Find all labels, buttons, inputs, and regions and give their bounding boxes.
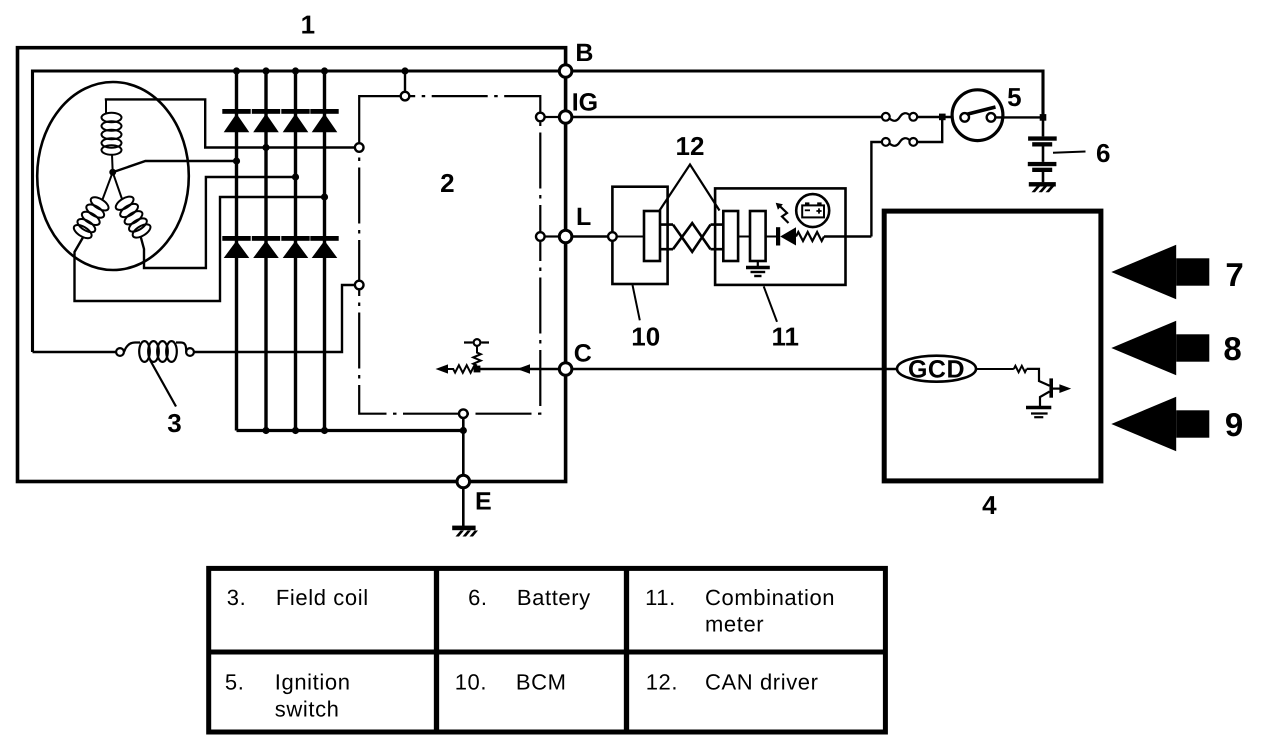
wire: neutral to rectifier column 1 [113, 161, 237, 172]
diode D6 (bottom row col 2) [252, 236, 280, 258]
junction neutral at col1 [233, 157, 240, 164]
svg-text:5.: 5. [225, 670, 245, 695]
junction dot at battery top [1040, 114, 1047, 121]
wire: lower-left phase to rectifier column 4 [75, 197, 325, 301]
legend table [209, 568, 886, 732]
svg-text:6.: 6. [468, 585, 488, 610]
wire: B bus from inner-left vertical along top to battery drop [33, 71, 1044, 352]
svg-text:1: 1 [301, 10, 315, 40]
diode D5 (bottom row col 1) [222, 236, 250, 258]
charge warning LED [776, 227, 796, 245]
diode D8 (bottom row col 4) [310, 236, 338, 258]
wire: GCD to transistor base resistor [976, 368, 1014, 370]
svg-text:7: 7 [1225, 256, 1243, 293]
junction on B rail col2 [262, 67, 269, 74]
junction phase B at col3 [292, 173, 299, 180]
arrow 7 [1111, 245, 1209, 300]
wire: L node to BCM [572, 235, 609, 237]
arrow tip left [436, 364, 449, 373]
svg-text:Combination: Combination [705, 585, 835, 610]
junction on B rail col4 [321, 67, 328, 74]
svg-text:C: C [574, 339, 592, 367]
svg-text:BCM: BCM [516, 670, 567, 695]
meter connector B [750, 211, 766, 261]
wire: regulator IG terminal to IG node [545, 116, 560, 118]
rectifier column lines [237, 71, 325, 431]
label 10 leader [633, 285, 640, 320]
slip ring right [186, 348, 194, 356]
wire: switch to battery junction [995, 116, 1043, 118]
wire: IG node to fuse [572, 116, 883, 119]
stator ellipse [37, 82, 189, 270]
label 6 leader [1053, 152, 1086, 153]
base resistor [1014, 366, 1027, 372]
wire: lower-right phase to rectifier column 3 [141, 177, 296, 268]
wire to charge lamp [766, 236, 776, 238]
svg-text:5: 5 [1007, 82, 1021, 112]
wire: E node to ground [462, 488, 465, 526]
wire from C node [477, 368, 566, 370]
junction phase C at col4 [321, 193, 328, 200]
svg-text:6: 6 [1096, 138, 1110, 168]
svg-text:3.: 3. [227, 585, 247, 610]
field coil wire (slip rings to regulator) [33, 351, 117, 353]
stator winding: lower-right phase coil [114, 194, 153, 240]
svg-text:11: 11 [771, 321, 799, 351]
ground (E) [452, 526, 478, 537]
field coil 3 [124, 341, 186, 362]
BCM box 10 [612, 187, 667, 284]
transistor emitter to ground [1040, 392, 1050, 407]
label 11 leader [764, 286, 777, 321]
BCM connector [644, 211, 660, 261]
junction dot [474, 366, 481, 373]
svg-text:8: 8 [1223, 330, 1241, 367]
ignition switch 5 [952, 90, 1003, 141]
alternator box 1 [18, 48, 566, 482]
svg-text:switch: switch [275, 697, 340, 722]
junction dot IG/fuse2 [939, 114, 946, 121]
ground (battery) [1029, 182, 1056, 192]
svg-text:Field coil: Field coil [276, 585, 369, 610]
alternator terminal nodes [457, 65, 572, 488]
lamp resistor [796, 232, 824, 241]
stator winding: top phase coil [102, 101, 122, 173]
combination meter box 11 [715, 188, 845, 285]
rectifier bottom rail [237, 429, 464, 432]
stator neutral point [109, 169, 116, 176]
wire: regulator top stub to B rail [404, 71, 406, 96]
svg-text:12: 12 [676, 131, 705, 161]
svg-text:Ignition: Ignition [275, 670, 351, 695]
diode D7 (bottom row col 3) [281, 236, 309, 258]
battery icon circle [796, 194, 829, 227]
svg-text:CAN driver: CAN driver [705, 670, 819, 695]
transistor Q1 base bar [1049, 378, 1053, 397]
battery icon [802, 202, 824, 217]
svg-text:11.: 11. [645, 585, 676, 610]
svg-text:10.: 10. [455, 670, 487, 695]
svg-text:12.: 12. [646, 670, 678, 695]
junction bottom rail col2 [262, 427, 269, 434]
BCM terminal circle [608, 232, 617, 241]
wire inside BCM [617, 236, 644, 238]
wire between connectors [738, 236, 750, 238]
label 3 leader [150, 360, 176, 407]
wire to transistor base [1027, 369, 1050, 386]
slip ring left [116, 348, 124, 356]
junction phase A at col2 [262, 144, 269, 151]
arrow into regulator [517, 364, 530, 374]
voltage regulator box 2 (dash-dot) [359, 96, 540, 414]
diode D1 (top row col 1) [222, 109, 250, 132]
diode D3 (top row col 3) [281, 109, 309, 132]
regulator terminal circles [355, 92, 545, 418]
svg-text:L: L [576, 203, 591, 231]
diode D2 (top row col 2) [252, 109, 280, 132]
ground (transistor) [1026, 408, 1051, 418]
diode D4 (top row col 4) [310, 109, 338, 132]
CAN stub wires (meter side) [711, 225, 724, 250]
transistor collector output arrow [1053, 388, 1061, 390]
wire: fuse to switch [917, 116, 952, 118]
battery 6 [1028, 120, 1057, 182]
sense terminal circle with ticks [474, 339, 481, 346]
svg-text:IG: IG [572, 88, 598, 116]
svg-text:4: 4 [982, 490, 997, 520]
connector B ground [757, 261, 759, 266]
CAN stub wires (BCM side) [660, 225, 673, 250]
junction bottom rail col4 [321, 427, 328, 434]
svg-text:Battery: Battery [517, 585, 591, 610]
LED light arrow [780, 207, 788, 223]
meter connector A [723, 211, 738, 261]
arrow 8 [1111, 321, 1209, 376]
svg-text:9: 9 [1225, 406, 1243, 443]
resistor (horizontal, C branch) [448, 365, 477, 373]
arrow 9 [1111, 397, 1209, 452]
stator winding: lower-left phase coil [72, 195, 111, 241]
svg-text:3: 3 [167, 408, 181, 438]
label 12 leaders [660, 165, 720, 211]
fuse F2 (meter feed) [871, 142, 882, 237]
CAN twisted pair 12 [673, 225, 711, 252]
wire: lamp to fuse F2 [824, 235, 871, 237]
fuse F1 [882, 113, 917, 121]
wire: stator Y leads [103, 172, 123, 199]
svg-text:GCD: GCD [908, 356, 965, 384]
wire: regulator L terminal to L node [545, 235, 560, 237]
junction on B rail col1 [233, 67, 240, 74]
svg-text:B: B [575, 39, 593, 67]
GCD stadium [897, 356, 976, 382]
junction bottom rail col3 [292, 427, 299, 434]
svg-text:2: 2 [440, 168, 454, 198]
junction bottom rail to E [460, 427, 467, 434]
svg-text:E: E [475, 488, 492, 516]
svg-text:meter: meter [705, 612, 764, 637]
svg-text:10: 10 [631, 321, 660, 351]
junction on B rail at regulator stub [401, 67, 408, 74]
wire: regulator bottom stub to rectifier rail and E [462, 418, 465, 482]
wire: C node to ECM [572, 368, 897, 371]
resistor (vertical) to sense terminal [473, 346, 481, 366]
ECM box 4 [884, 211, 1101, 481]
wire: top phase to rectifier column 2 and regulator [106, 99, 355, 147]
junction on B rail col3 [292, 67, 299, 74]
